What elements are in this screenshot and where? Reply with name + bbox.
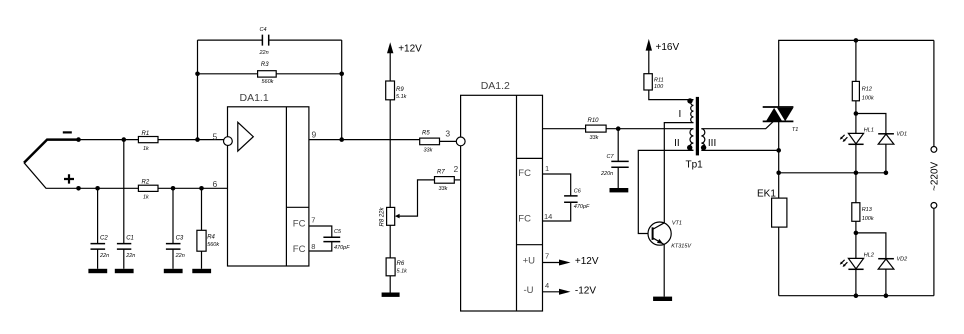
resistor R5 xyxy=(420,131,440,154)
label plus xyxy=(64,174,74,183)
svg-text:560k: 560k xyxy=(262,79,274,85)
LED HL2 xyxy=(840,233,874,296)
wire R6 to ground xyxy=(389,276,391,293)
svg-text:R1: R1 xyxy=(142,131,150,137)
svg-text:R6: R6 xyxy=(397,261,405,267)
svg-text:R11: R11 xyxy=(654,78,664,84)
thermocouple input probe xyxy=(24,140,79,163)
svg-text:R10: R10 xyxy=(588,118,600,124)
heater EK1 xyxy=(757,189,787,228)
svg-text:470pF: 470pF xyxy=(574,204,590,210)
wire pin4 to -12V arrow xyxy=(543,291,560,293)
svg-text:R12: R12 xyxy=(862,87,872,93)
node dot feedback right top xyxy=(339,72,344,77)
diode VD2 xyxy=(856,233,907,296)
svg-text:100k: 100k xyxy=(862,216,874,222)
svg-text:3: 3 xyxy=(445,129,450,139)
winding I xyxy=(691,100,694,123)
wire pin14 to C6 xyxy=(543,202,571,221)
potentiometer R8 xyxy=(380,206,400,226)
resistor R4 xyxy=(197,188,219,268)
capacitor C2 xyxy=(91,188,110,268)
resistor R2 xyxy=(138,179,158,200)
node dot HL1 bottom xyxy=(854,171,859,176)
svg-text:5: 5 xyxy=(213,132,218,142)
node dot winding III to triac line xyxy=(776,148,781,153)
node dot C3 tap xyxy=(171,186,176,191)
+16V supply arrow xyxy=(646,39,680,53)
terminal circle top xyxy=(931,147,937,153)
wire R11 to winding I top xyxy=(649,90,694,100)
svg-text:R2: R2 xyxy=(142,179,150,185)
node dot input minus xyxy=(76,137,81,142)
svg-text:7: 7 xyxy=(311,216,315,225)
wire top left loop / triac anode xyxy=(779,40,934,107)
svg-text:100k: 100k xyxy=(862,95,874,101)
svg-text:33k: 33k xyxy=(439,186,448,192)
svg-text:R5: R5 xyxy=(422,131,430,137)
wire +12V to R9 xyxy=(389,50,391,81)
svg-text:33k: 33k xyxy=(424,148,433,154)
svg-text:-U: -U xyxy=(524,285,534,296)
svg-text:22n: 22n xyxy=(175,253,185,259)
+12V supply arrow xyxy=(559,256,599,267)
svg-text:VD2: VD2 xyxy=(897,257,908,263)
wire winding II bottom to VT1 base xyxy=(638,150,693,233)
svg-text:+U: +U xyxy=(523,256,536,267)
node dot feedback right bottom xyxy=(339,137,344,142)
-12V supply arrow xyxy=(559,286,596,297)
wire pin7 to C5 xyxy=(309,226,332,237)
ground below C3 xyxy=(164,269,183,273)
svg-text:R4: R4 xyxy=(207,235,215,241)
svg-text:III: III xyxy=(708,138,716,149)
svg-text:C7: C7 xyxy=(607,154,615,160)
op-amp DA1.2 body xyxy=(461,80,543,311)
wire feedback left vertical xyxy=(197,40,199,140)
ground below R6 xyxy=(382,293,400,297)
ground below R4 xyxy=(192,269,211,273)
wire EK1 to bottom wire xyxy=(778,227,780,296)
svg-text:+16V: +16V xyxy=(656,42,680,53)
ground below VT1 xyxy=(653,297,672,301)
winding III xyxy=(701,129,705,151)
svg-text:1k: 1k xyxy=(143,146,149,152)
svg-text:I: I xyxy=(679,109,682,120)
wire bottom rail xyxy=(779,295,934,297)
+12V supply arrow xyxy=(387,42,422,54)
node dot R12 bottom xyxy=(854,111,859,116)
svg-text:-12V: -12V xyxy=(575,286,596,297)
svg-text:1: 1 xyxy=(545,164,549,173)
svg-text:T1: T1 xyxy=(792,127,798,133)
svg-text:C3: C3 xyxy=(176,236,184,242)
ground below C1 xyxy=(115,269,134,273)
capacitor C4 xyxy=(198,27,342,56)
svg-text:14: 14 xyxy=(544,212,552,221)
svg-text:33k: 33k xyxy=(590,135,599,141)
svg-text:C1: C1 xyxy=(126,236,134,242)
node dot R10 C7 junction xyxy=(616,126,621,131)
svg-text:R3: R3 xyxy=(261,62,269,68)
node dot feedback left top xyxy=(195,72,200,77)
wire R8 to R6 xyxy=(389,225,391,258)
wire R10 to transformer winding II xyxy=(606,128,693,130)
capacitor C3 xyxy=(166,188,185,268)
resistor R11 xyxy=(644,74,664,91)
wire R9 to R8 (crosses output wire) xyxy=(389,100,391,208)
resistor R3 xyxy=(198,62,342,85)
wire DA1.1 output pin9 to R5 xyxy=(309,139,420,141)
svg-text:9: 9 xyxy=(312,130,317,140)
svg-text:FC: FC xyxy=(518,168,531,179)
wire winding III bottom to triac line xyxy=(701,149,778,151)
svg-text:C2: C2 xyxy=(100,236,108,242)
resistor R7 xyxy=(435,170,455,193)
node dot HL2 bottom xyxy=(854,293,859,298)
svg-text:EK1: EK1 xyxy=(757,189,776,200)
node dot feedback left bottom xyxy=(195,137,200,142)
svg-text:C6: C6 xyxy=(574,189,582,195)
svg-text:+12V: +12V xyxy=(398,44,422,55)
svg-text:HL2: HL2 xyxy=(864,253,874,259)
node dot VD1 bottom xyxy=(884,171,889,176)
pin 3 bubble xyxy=(456,137,465,146)
svg-text:FC: FC xyxy=(293,219,306,230)
svg-text:DA1.1: DA1.1 xyxy=(240,92,269,104)
diode VD1 xyxy=(856,114,907,173)
terminal circle bottom xyxy=(931,203,937,209)
ground below C7 xyxy=(610,188,629,192)
capacitor C7 xyxy=(600,129,629,188)
svg-text:DA1.2: DA1.2 xyxy=(481,80,510,92)
resistor R10 xyxy=(586,118,607,141)
resistor R9 xyxy=(386,81,407,100)
op-amp DA1.1 body xyxy=(228,92,309,266)
capacitor C5 xyxy=(323,229,350,251)
capacitor C6 xyxy=(564,189,590,211)
wire top line to R1 xyxy=(79,139,138,141)
triac T1 xyxy=(763,107,799,133)
resistor R12 xyxy=(852,40,874,113)
wire pin8 to C5 xyxy=(309,242,332,251)
svg-text:FC: FC xyxy=(293,244,306,255)
wire DA1.2 output to R10 xyxy=(543,128,586,130)
svg-text:2: 2 xyxy=(454,164,459,174)
wire pin7 to +12V arrow xyxy=(543,262,560,264)
wire VT1 emitter to ground xyxy=(663,245,665,297)
winding II xyxy=(690,129,694,151)
resistor R13 xyxy=(852,173,874,233)
wire winding III top to triac gate xyxy=(701,122,773,129)
svg-text:C5: C5 xyxy=(334,229,342,235)
svg-text:R8 22k: R8 22k xyxy=(380,206,386,226)
node dot R13 bottom xyxy=(854,231,859,236)
transistor VT1 xyxy=(648,221,692,250)
node dot input plus xyxy=(76,186,81,191)
svg-text:~220V: ~220V xyxy=(929,161,940,191)
ground below C2 xyxy=(88,269,107,273)
svg-text:470pF: 470pF xyxy=(334,245,350,251)
svg-text:560k: 560k xyxy=(207,242,219,248)
svg-text:8: 8 xyxy=(311,242,315,251)
svg-text:6: 6 xyxy=(213,179,218,189)
svg-text:5.1k: 5.1k xyxy=(396,94,407,100)
svg-text:FC: FC xyxy=(518,214,531,225)
svg-text:+12V: +12V xyxy=(575,256,599,267)
svg-text:22n: 22n xyxy=(259,50,269,56)
wire winding I bottom to VT1 collector xyxy=(664,123,693,223)
svg-text:22n: 22n xyxy=(99,253,109,259)
resistor R6 xyxy=(386,258,407,276)
svg-text:VD1: VD1 xyxy=(896,131,907,137)
svg-text:100: 100 xyxy=(654,84,664,90)
wire feedback right vertical xyxy=(341,40,343,140)
svg-text:KT315V: KT315V xyxy=(671,244,692,250)
wire R2 to DA1.1 pin6 xyxy=(158,187,228,189)
resistor R1 xyxy=(138,131,158,152)
svg-text:1k: 1k xyxy=(143,194,149,200)
wire lower probe limb to R2 xyxy=(24,163,138,189)
svg-text:7: 7 xyxy=(545,252,549,261)
svg-text:HL1: HL1 xyxy=(864,128,874,134)
svg-text:R7: R7 xyxy=(437,170,445,176)
svg-text:R13: R13 xyxy=(862,207,873,213)
node dot R4 tap xyxy=(199,186,204,191)
pin 5 bubble xyxy=(224,137,233,146)
wire bottom terminal to bottom wire xyxy=(933,208,935,295)
wire right vertical to top terminal xyxy=(933,40,935,146)
node dot C1 tap xyxy=(122,137,127,142)
svg-text:4: 4 xyxy=(545,281,549,290)
svg-text:R9: R9 xyxy=(396,87,404,93)
wire triac to EK1 xyxy=(778,122,780,198)
wire R7 to pin2 xyxy=(454,179,460,181)
LED HL1 xyxy=(840,114,874,173)
svg-text:5.1k: 5.1k xyxy=(397,268,408,274)
capacitor C1 (from top wire, crosses bottom wire) xyxy=(117,140,135,269)
svg-text:II: II xyxy=(674,138,680,149)
node dot C2 tap xyxy=(95,186,100,191)
wire R5 to pin3 bubble xyxy=(440,140,457,142)
svg-text:22n: 22n xyxy=(125,253,135,259)
node dot top rail R12 xyxy=(854,38,859,43)
polarity dot winding I xyxy=(687,98,692,103)
transformer Tp1 core xyxy=(696,97,699,155)
svg-text:C4: C4 xyxy=(260,27,267,33)
wire pin1 to C6 xyxy=(543,174,571,196)
node dot VD2 bottom xyxy=(884,293,889,298)
node dot middle rail left xyxy=(776,171,781,176)
wire +16V to R11 xyxy=(648,48,650,74)
svg-text:Tp1: Tp1 xyxy=(686,160,704,171)
polarity dot winding III xyxy=(701,145,706,150)
svg-text:VT1: VT1 xyxy=(672,221,682,227)
svg-text:220n: 220n xyxy=(600,171,613,177)
label minus xyxy=(63,131,72,133)
wire R8 wiper to R7 xyxy=(399,180,434,216)
polarity dot winding II xyxy=(687,145,692,150)
wire R1 to pin5 bubble xyxy=(158,139,224,141)
wire middle rail EK1 to VD1 xyxy=(779,172,886,174)
